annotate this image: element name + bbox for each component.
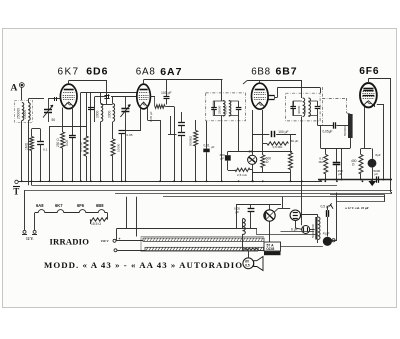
shielded cable 1 <box>143 238 264 241</box>
svg-text:30000: 30000 <box>297 105 301 114</box>
capacitor C2 <box>104 96 109 99</box>
svg-text:0.05: 0.05 <box>65 140 69 146</box>
resistor R11 15.5 <box>90 218 108 226</box>
wire <box>127 197 137 237</box>
label 50uF <box>291 139 299 143</box>
capacitor C19 <box>327 210 329 217</box>
label 0.05uF <box>234 207 240 215</box>
wire <box>125 122 127 181</box>
wire <box>195 120 197 181</box>
fuse F1 <box>302 226 310 234</box>
cable box <box>141 237 264 252</box>
svg-text:3000: 3000 <box>96 110 100 118</box>
bus L5 <box>163 196 385 198</box>
tuning capacitor C7 <box>120 97 130 123</box>
wire <box>94 97 96 123</box>
svg-text:μF: μF <box>211 145 215 149</box>
svg-text:OZ45: OZ45 <box>266 247 274 251</box>
T2 primary loop <box>293 101 302 116</box>
wire <box>28 99 44 103</box>
wire <box>150 96 155 98</box>
wire <box>181 112 183 181</box>
wire <box>374 105 376 108</box>
svg-text:1MΩ: 1MΩ <box>25 142 29 150</box>
svg-text:MΩ: MΩ <box>319 160 325 164</box>
svg-text:50000: 50000 <box>303 105 307 114</box>
wire <box>303 80 318 126</box>
wire <box>69 81 108 96</box>
svg-text:0,5: 0,5 <box>245 264 250 268</box>
svg-text:μF: μF <box>236 210 240 214</box>
svg-text:500000000: 500000000 <box>311 224 315 238</box>
transformer TR1 core <box>264 251 281 255</box>
resistor R5 <box>189 131 198 147</box>
wire <box>250 169 252 171</box>
wire <box>112 122 114 181</box>
resistor R13 <box>79 92 88 181</box>
wire <box>40 129 42 181</box>
wire <box>25 190 35 230</box>
label 12V <box>26 237 34 241</box>
svg-text:15.5 Ω: 15.5 Ω <box>91 222 101 226</box>
switch S1 <box>329 203 335 242</box>
resistor R4 <box>150 97 166 109</box>
terminal A <box>11 83 25 94</box>
wire <box>122 108 141 131</box>
output choke L5 <box>311 217 320 240</box>
wire <box>49 126 86 181</box>
capacitor C15 250uF <box>333 163 343 177</box>
label 6A8 6A7 <box>136 66 183 78</box>
svg-text:6A8: 6A8 <box>136 67 156 78</box>
wire <box>32 129 41 186</box>
junction dots <box>21 179 385 183</box>
terminal T <box>13 180 20 196</box>
speaker LS1 <box>254 257 263 271</box>
svg-text:IRRADIO: IRRADIO <box>50 236 90 246</box>
resistor R8 0.5M <box>289 153 293 170</box>
wire <box>270 197 291 242</box>
label a 12V <box>345 206 369 210</box>
svg-text:25000: 25000 <box>218 105 222 114</box>
resistor R10 400 <box>351 155 363 175</box>
svg-text:0.05: 0.05 <box>127 133 133 137</box>
resistor R6 2.5M <box>235 168 250 177</box>
label 6K7 6D6 <box>58 66 109 78</box>
wire <box>361 107 372 180</box>
sideways label 0.05uF <box>149 111 153 122</box>
shielded cable 2 <box>145 247 264 250</box>
wire <box>116 241 145 251</box>
coupling capacitor C14 <box>323 122 336 133</box>
wire <box>168 116 177 135</box>
heater chain <box>35 210 108 213</box>
wire <box>238 101 240 116</box>
oscillator coil L2 <box>96 104 103 122</box>
wire <box>242 219 244 240</box>
T1 secondary cap <box>236 108 242 110</box>
IF transformer T2 box <box>286 93 321 121</box>
wire <box>206 121 208 181</box>
tube U4 6F6 <box>360 83 377 107</box>
label 6F6 <box>359 66 379 77</box>
svg-text:50000Ω: 50000Ω <box>189 135 193 146</box>
wire <box>301 80 303 98</box>
wire <box>238 116 240 152</box>
wire <box>228 152 236 171</box>
svg-text:0,5 μF: 0,5 μF <box>321 205 330 209</box>
wire <box>259 80 261 83</box>
transformer TR1 57A <box>264 242 281 251</box>
wire <box>325 148 327 180</box>
wire <box>253 134 297 152</box>
capacitor C8 <box>119 131 133 138</box>
wire <box>372 149 374 180</box>
wire <box>214 101 216 116</box>
svg-text:T: T <box>13 186 19 196</box>
svg-text:6K7: 6K7 <box>58 67 80 78</box>
T2 secondary loop <box>308 101 317 116</box>
svg-text:0,05μF: 0,05μF <box>323 130 333 134</box>
wire <box>275 88 321 98</box>
svg-text:4 μF: 4 μF <box>323 232 330 236</box>
wire <box>72 106 74 136</box>
svg-text:6K7: 6K7 <box>55 203 63 208</box>
svg-text:6B8: 6B8 <box>96 203 104 208</box>
wire <box>368 79 391 193</box>
T2 primary coil <box>297 98 305 117</box>
antenna coil L1 secondary <box>23 103 30 121</box>
volume potentiometer P1 <box>343 114 352 138</box>
speaker coil <box>244 249 259 251</box>
label 6uF <box>291 228 298 232</box>
wire <box>167 107 175 182</box>
wire <box>301 117 303 226</box>
svg-text:250 Ω: 250 Ω <box>56 138 60 147</box>
T1 primary cap <box>211 108 217 110</box>
grid stopper cap <box>52 97 60 101</box>
wire <box>62 108 64 133</box>
svg-text:10000: 10000 <box>117 143 121 152</box>
wire <box>253 110 291 152</box>
svg-text:6B7: 6B7 <box>276 66 298 78</box>
bus L4 <box>115 193 392 195</box>
wire <box>250 205 252 229</box>
wire <box>62 148 64 181</box>
wire <box>330 195 385 202</box>
label 5000pF <box>374 169 381 176</box>
resistor R9 0.1M <box>319 155 328 175</box>
wire <box>21 87 23 100</box>
wire <box>257 228 318 235</box>
wire <box>72 138 74 181</box>
wire <box>148 108 161 182</box>
shield line <box>322 87 324 126</box>
wire <box>248 251 250 258</box>
wire <box>336 148 338 180</box>
svg-text:6F6: 6F6 <box>359 66 379 77</box>
wire <box>377 104 384 180</box>
pilot lamp V2 <box>264 210 275 221</box>
svg-text:0,5 MΩ: 0,5 MΩ <box>273 145 284 149</box>
wire <box>253 152 291 173</box>
wire <box>101 98 113 105</box>
capacitor C12 0.01 <box>203 143 214 152</box>
capacitor C11 <box>178 133 185 136</box>
svg-text:MODD. « A 43 » - « AA 43 » AUT: MODD. « A 43 » - « AA 43 » AUTORADIO <box>44 260 243 270</box>
capacitor C5 <box>107 94 109 98</box>
capacitor C13 300pF <box>220 153 231 161</box>
choke L4 <box>243 219 246 235</box>
svg-text:8μF: 8μF <box>375 153 381 157</box>
resistor R2 1M <box>25 137 34 151</box>
wire <box>321 126 351 180</box>
resistor R7 600 <box>261 155 271 168</box>
capacitor C6 <box>88 108 94 110</box>
svg-text:6D6: 6D6 <box>86 66 108 78</box>
svg-text:A: A <box>11 84 18 94</box>
terminal 150V <box>113 239 116 242</box>
svg-text:100 μF: 100 μF <box>278 130 288 134</box>
wire <box>117 228 257 230</box>
T1 primary loop <box>213 101 224 116</box>
svg-text:50 μF: 50 μF <box>291 139 299 143</box>
T2 secondary coil <box>303 98 310 117</box>
svg-text:6B8: 6B8 <box>251 66 271 77</box>
IF transformer T1 box <box>206 93 246 121</box>
bus L2 <box>32 185 338 187</box>
antenna coil L1 primary <box>17 103 24 121</box>
label IRRADIO <box>50 236 90 246</box>
svg-text:μF: μF <box>338 172 342 176</box>
wire <box>337 125 349 127</box>
wire <box>236 205 281 229</box>
svg-text:2,5 mA: 2,5 mA <box>237 173 248 177</box>
electrolytic C20 4uF <box>323 232 332 246</box>
svg-text:0,05 μF: 0,05 μF <box>79 142 83 152</box>
svg-text:6F6: 6F6 <box>77 203 85 208</box>
wire <box>318 125 333 127</box>
electrolytic C16 8uF <box>368 153 381 168</box>
svg-text:3000: 3000 <box>107 110 111 118</box>
resistor R3 <box>111 139 121 156</box>
ground <box>369 180 375 186</box>
svg-text:20000: 20000 <box>23 110 27 119</box>
svg-text:μF: μF <box>375 172 379 176</box>
shielded grid lead <box>322 98 350 114</box>
wire <box>91 213 117 241</box>
wire <box>228 151 292 153</box>
tube U2 6A8/6A7 <box>137 84 151 109</box>
T1 secondary loop <box>229 101 239 116</box>
svg-text:150 V: 150 V <box>101 239 110 243</box>
T2 primary cap <box>290 107 296 109</box>
wire <box>221 80 223 101</box>
diode plates of U3 <box>268 95 274 99</box>
svg-text:500000: 500000 <box>343 126 347 136</box>
chassis bus L1 <box>18 180 392 182</box>
svg-text:6A7: 6A7 <box>160 66 182 78</box>
wire <box>243 240 265 251</box>
svg-text:0.1: 0.1 <box>43 148 48 152</box>
svg-text:25000: 25000 <box>224 105 228 114</box>
svg-text:10: 10 <box>249 150 253 154</box>
resistor R12 <box>267 142 288 149</box>
wire <box>295 221 302 230</box>
wire <box>332 193 337 241</box>
terminal out <box>114 249 117 252</box>
oscillator coil L3 <box>107 104 114 122</box>
wire <box>281 230 323 247</box>
bus L3 <box>24 190 392 192</box>
label 150V <box>101 237 121 243</box>
svg-text:6A8: 6A8 <box>36 203 44 208</box>
wire <box>95 97 137 104</box>
wire <box>391 192 392 194</box>
wire <box>166 80 168 105</box>
wire <box>221 116 223 182</box>
svg-text:pF: pF <box>221 156 225 160</box>
rectifier V3 OZ4 <box>290 210 300 220</box>
capacitor C10 <box>178 123 185 126</box>
caption MODD <box>44 260 243 270</box>
T2 secondary cap <box>315 107 321 109</box>
tube U1 6K7/6D6 <box>60 84 77 109</box>
label 50 <box>52 118 56 122</box>
wire <box>290 152 292 182</box>
T1 secondary coil <box>224 101 231 117</box>
label 6B8 6B7 <box>251 66 297 78</box>
wire <box>252 134 254 181</box>
wire <box>252 172 254 181</box>
wire <box>48 98 60 100</box>
tube U3 6B8/6B7 <box>251 83 268 109</box>
capacitor C4 <box>37 142 47 152</box>
neon lamp V1 <box>248 150 257 165</box>
capacitor C18 <box>248 209 255 212</box>
wire <box>327 206 329 236</box>
wire <box>144 80 303 85</box>
wire <box>22 121 29 186</box>
field coil lamp <box>243 258 254 269</box>
wire <box>301 215 318 244</box>
svg-text:6 μF: 6 μF <box>291 228 298 232</box>
tuning capacitor C1 <box>43 99 53 122</box>
capacitor C9 100pF <box>161 91 172 99</box>
terminal 12V minus <box>22 230 27 234</box>
capacitor C3 <box>65 136 76 147</box>
wire <box>121 133 123 181</box>
T1 primary coil <box>218 101 226 117</box>
resistor R1 <box>56 132 65 148</box>
wire <box>293 101 295 116</box>
wire <box>317 101 319 116</box>
svg-text:250000: 250000 <box>17 108 21 119</box>
label 0.1uF <box>321 205 330 209</box>
svg-text:12 V.: 12 V. <box>26 237 34 241</box>
svg-text:a 12 V. col. 25 μF: a 12 V. col. 25 μF <box>345 206 369 210</box>
terminal 12V plus <box>32 230 37 234</box>
antenna transformer box <box>15 101 33 123</box>
svg-text:50: 50 <box>52 118 56 122</box>
capacitor C21 100uF <box>272 130 289 137</box>
wire <box>91 92 101 181</box>
heater labels <box>36 203 104 208</box>
capacitor C17 <box>377 176 379 182</box>
wire <box>81 92 138 181</box>
